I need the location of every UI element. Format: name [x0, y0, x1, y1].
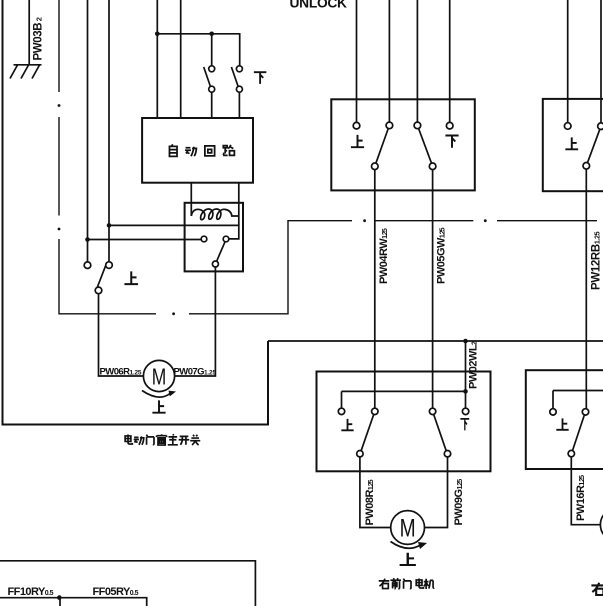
- svg-text:PW06R1.25: PW06R1.25: [100, 366, 142, 377]
- wire: supply rail into module U1 pin2: [180, 0, 182, 118]
- svg-text:PW12RB1.25: PW12RB1.25: [590, 231, 602, 290]
- chain line: zone boundary (dash-dot): [58, 0, 597, 315]
- junction node G: [57, 595, 62, 600]
- wire: feed to switch S1 left contact: [87, 0, 89, 262]
- label 右前门电机: [379, 578, 435, 589]
- label 上 (S4): [351, 135, 364, 147]
- wire: U1 to relay coil left lead: [190, 183, 192, 216]
- wire: S1 to motor M1 left terminal: [99, 294, 144, 376]
- switch S1 (main switch UP contact): [84, 262, 91, 269]
- ground G1 (chassis ground): [10, 65, 42, 79]
- label 下 (S2/S3): [254, 72, 266, 84]
- junction node A: [85, 237, 90, 242]
- relay K1 coil: [191, 209, 239, 220]
- wire PW04RW to motor box: [374, 170, 376, 409]
- label PW03B 2: [33, 17, 45, 60]
- label 上 (S7): [556, 418, 568, 429]
- wire: lift switch feed 4: [449, 0, 451, 122]
- wire: node E down into motor box: [465, 341, 467, 408]
- svg-text:PW04RW1.25: PW04RW1.25: [378, 228, 390, 284]
- wire: node B to relay NO contact (step): [109, 225, 239, 239]
- svg-text:PW08R1.25: PW08R1.25: [364, 479, 376, 525]
- wire: feed to switch S6: [567, 0, 569, 123]
- wire: supply rail into module U1 pin1: [156, 0, 158, 118]
- wire: S3 to module U1: [238, 92, 240, 118]
- svg-text:PW16R1.25: PW16R1.25: [575, 475, 587, 521]
- switch S7 contacts: [550, 409, 556, 415]
- box: right rear door motor unit: [526, 370, 603, 469]
- switch S2 (DOWN): [209, 66, 215, 72]
- motor M1: [143, 360, 174, 391]
- label 下 (S5): [460, 419, 469, 430]
- motor M2: [391, 511, 425, 545]
- svg-text:M: M: [152, 364, 167, 390]
- wire: S5 to motor M2 right: [425, 457, 448, 528]
- svg-text:FF10RY0.5: FF10RY0.5: [8, 586, 54, 598]
- label 上 (S1): [124, 271, 138, 284]
- wire: internal bus (lower right box): [553, 391, 603, 409]
- svg-text:M: M: [400, 515, 416, 543]
- wire: motor M1 right terminal to relay common: [175, 267, 216, 376]
- wire: S5 to motor M2 left: [360, 457, 391, 528]
- wire: PW03B ground lead: [28, 0, 30, 65]
- label 右后门电机 (clipped): [591, 582, 603, 595]
- junction node D: [209, 32, 214, 37]
- svg-text:FF05RY0.5: FF05RY0.5: [93, 586, 139, 598]
- svg-text:PW02WL2: PW02WL2: [468, 341, 480, 389]
- wire: lift switch feed 1: [356, 0, 358, 122]
- enclosure: power-window main switch unit box: [3, 0, 269, 425]
- wire: internal bus: [342, 391, 466, 408]
- motor M1 rotation arrow: [142, 391, 170, 398]
- wire: node A to relay NC contact: [88, 239, 202, 241]
- junction node F: [463, 389, 468, 394]
- label 电动门窗主开关: [125, 434, 200, 445]
- wire: feed to switch S6 blade: [600, 0, 602, 123]
- label 上 (S6): [565, 137, 578, 149]
- wire: S2 to module U1: [211, 92, 213, 118]
- wire PW12RB down to lower box: [585, 169, 587, 409]
- switch S6 contacts: [564, 123, 571, 130]
- label 自动回路: [169, 144, 234, 156]
- wire: feed to switch S1 right contact: [108, 0, 110, 262]
- relay K1 contacts: [201, 236, 207, 242]
- label 下 (S4): [445, 136, 458, 148]
- motor M3 (clipped at edge): [600, 508, 603, 541]
- svg-text:PW03B 2: PW03B 2: [33, 17, 45, 60]
- module U1: automatic circuit box: [142, 118, 253, 183]
- switch box: right rear window switch: [543, 99, 603, 191]
- wire: top rail to S2/S3: [157, 34, 239, 66]
- switch S5 contacts: [338, 408, 344, 414]
- box: right front door motor unit: [317, 372, 491, 472]
- wire: PW02WL feed bus: [268, 340, 603, 342]
- wire: lower feed line: [0, 561, 255, 606]
- wire: lift switch feed 3: [416, 0, 418, 122]
- switch S3 (DOWN): [236, 66, 242, 72]
- wire: U1 to relay coil right lead / contact feed: [238, 183, 240, 226]
- junction node C: [155, 32, 160, 37]
- label 上 (S5): [341, 419, 353, 430]
- svg-text:UNLOCK: UNLOCK: [290, 0, 348, 11]
- wire: S7 to motor M3: [571, 457, 600, 525]
- junction node B: [107, 223, 112, 228]
- wire: FF fuse feed: [0, 598, 147, 606]
- switch box: right front window switch: [331, 99, 475, 190]
- relay K1 box: [185, 203, 243, 272]
- svg-text:PW05GW1.25: PW05GW1.25: [435, 227, 447, 284]
- wire: lift switch feed 2: [388, 0, 390, 122]
- svg-text:PW09G1.25: PW09G1.25: [453, 479, 465, 526]
- label 上 (M2 direction): [400, 553, 416, 565]
- label 上 (M1 direction): [152, 400, 165, 412]
- wire PW05GW to motor box: [432, 170, 434, 409]
- motor M2 rotation arrow: [391, 542, 421, 549]
- svg-text:PW07G1.25: PW07G1.25: [174, 366, 217, 377]
- switch S4 contacts: [353, 122, 360, 129]
- junction node E: [463, 339, 468, 344]
